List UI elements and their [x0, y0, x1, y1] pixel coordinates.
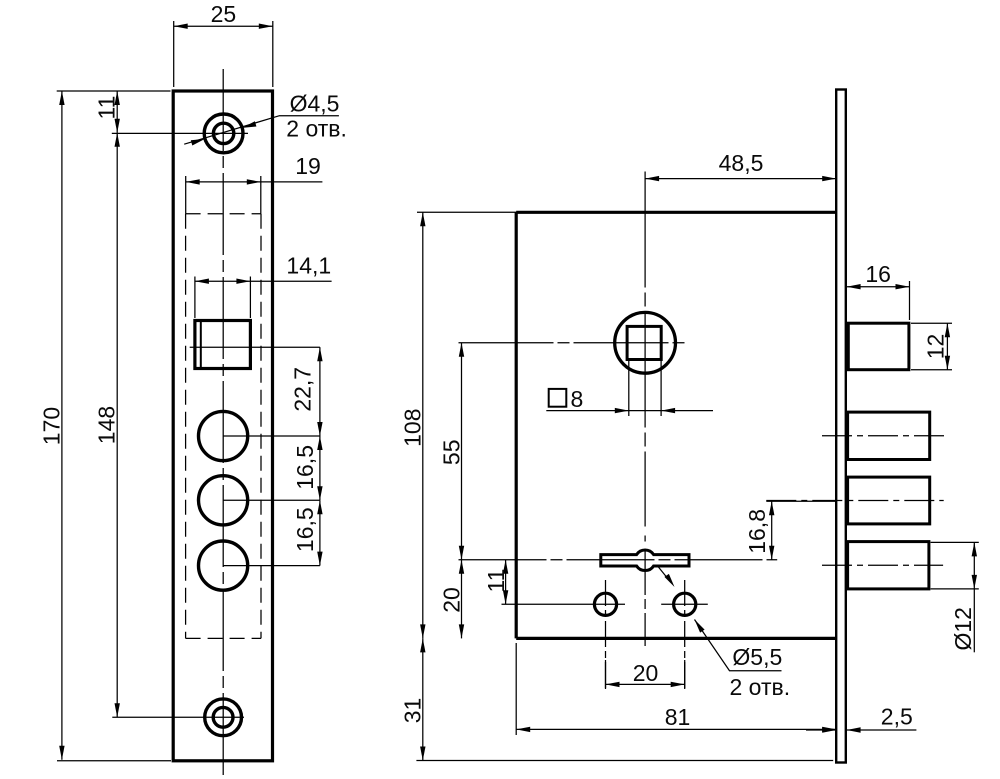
dim 20 left arrow bottom	[459, 624, 464, 638]
faceplate front outline	[173, 91, 272, 761]
dim 14,1 line	[195, 280, 332, 282]
svg-text:25: 25	[211, 1, 237, 27]
dim 22,7 arrow top	[317, 347, 322, 361]
dim 81 arrow left	[516, 727, 530, 732]
dim 108 extension top	[417, 211, 517, 213]
svg-text:Ø12: Ø12	[950, 607, 976, 650]
dim 11 arrow top	[115, 91, 120, 105]
dim 8 extension right	[660, 360, 662, 417]
dim 81 arrow right	[822, 727, 836, 732]
svg-text:148: 148	[93, 406, 119, 444]
pocket dashed top	[186, 213, 261, 215]
dim 25 arrow left	[174, 24, 188, 29]
dim 25 extension right	[272, 21, 274, 87]
lock body top edge	[516, 211, 836, 214]
dim 16,8 arrow bottom	[769, 546, 774, 560]
dim 16,8 ext top	[766, 500, 836, 502]
svg-text:2 отв.: 2 отв.	[730, 674, 791, 700]
spindle circle	[615, 312, 676, 373]
dim 11 body line	[505, 560, 507, 605]
dim 148 arrow top	[115, 133, 120, 147]
spindle vertical centerline	[644, 172, 646, 527]
dim 19 arrow left	[186, 179, 200, 184]
svg-text:31: 31	[400, 698, 426, 724]
dim 25 extension left	[173, 21, 175, 87]
svg-text:16: 16	[865, 261, 891, 287]
dim 20b arrow right	[671, 682, 685, 687]
dim 2,5 arrow left	[822, 727, 836, 732]
dim 19 extension left	[185, 176, 187, 214]
dim 25 line	[174, 25, 273, 27]
bolt hole 3 centerline	[223, 565, 320, 567]
bolt 3 centerline	[822, 564, 943, 566]
svg-text:16,5: 16,5	[292, 507, 318, 552]
dim 81 extension left	[515, 643, 517, 735]
dim 20b extension left	[605, 660, 607, 689]
dim 11 arrow bottom	[115, 119, 120, 133]
dim 22,7 line	[319, 347, 321, 436]
latch centerline	[190, 346, 320, 348]
svg-text:2,5: 2,5	[881, 704, 913, 730]
dim 16,5a line	[319, 436, 321, 500]
face strip outline	[836, 90, 846, 763]
dim 12 arrow top	[945, 323, 950, 337]
dim 55 arrow top	[459, 343, 464, 357]
bolt hole 2 centerline	[223, 499, 320, 501]
cam bar centerline	[459, 559, 778, 561]
dim 14,1 arrow right	[236, 279, 250, 284]
dim 14,1 arrow left	[195, 279, 209, 284]
dim 16 extension right	[909, 281, 911, 320]
dim 48,5 arrow right	[822, 176, 836, 181]
pocket dashed bottom	[186, 637, 261, 639]
top screw hole inner circle	[213, 123, 233, 143]
dim 48,5 arrow left	[645, 176, 659, 181]
dim 20 left arrow top	[459, 560, 464, 574]
dim 11 body arrow top	[503, 560, 508, 574]
fixing hole right v centerline	[684, 580, 686, 691]
dim 8 arrow right	[661, 408, 675, 413]
dim 170 arrow bottom	[59, 746, 64, 760]
lock body bottom edge	[516, 637, 836, 640]
leader cam arrow	[664, 574, 674, 587]
dim 31 bottom extension	[416, 760, 833, 762]
top screw hole horizontal centerline	[112, 132, 248, 134]
svg-text:19: 19	[295, 153, 321, 179]
svg-text:48,5: 48,5	[719, 150, 764, 176]
svg-text:2 отв.: 2 отв.	[286, 116, 347, 142]
leader hole to text	[695, 620, 782, 671]
pocket dashed right	[260, 214, 262, 639]
dim 170 line	[61, 91, 63, 760]
svg-text:81: 81	[665, 704, 691, 730]
dim 31 arrow bottom	[420, 747, 425, 761]
leader arrow right	[242, 121, 256, 128]
bolt 2 side	[848, 477, 930, 524]
latch opening rect	[195, 321, 251, 369]
svg-text:16,5: 16,5	[292, 445, 318, 490]
dim 8 line	[546, 410, 713, 412]
leader hole arrow	[695, 620, 705, 633]
dim 12 line	[946, 323, 948, 370]
svg-text:170: 170	[39, 407, 65, 445]
bolt 3 side	[848, 542, 929, 589]
bolt 1 side	[848, 412, 930, 459]
dim 170 arrow top	[59, 91, 64, 105]
dim 16,5b line	[319, 500, 321, 565]
dim 16,5b arrow bottom	[317, 552, 322, 566]
dim 8 arrow left	[615, 408, 629, 413]
dim 12 ext bottom	[911, 369, 952, 371]
fixing hole left h centerline	[502, 603, 626, 605]
dim 16 line	[847, 286, 910, 288]
svg-text:8: 8	[571, 386, 584, 412]
svg-text:20: 20	[633, 660, 659, 686]
dim 170 extension top	[57, 90, 171, 92]
spindle vertical centerline dash	[644, 536, 646, 542]
dim 16,8 line	[771, 501, 773, 560]
dim 12 arrow bottom	[945, 356, 950, 370]
dim 20b line	[606, 683, 685, 685]
dim 170 extension bottom	[57, 760, 171, 762]
svg-text:108: 108	[400, 409, 426, 447]
bottom screw hole horizontal centerline	[112, 716, 244, 718]
bolt hole 1 centerline	[223, 435, 320, 437]
dim 55 line	[461, 343, 463, 560]
dim 48,5 line	[645, 178, 836, 180]
square symbol	[549, 389, 567, 407]
latch bevel line	[200, 321, 202, 369]
spindle horizontal centerline	[459, 342, 687, 344]
spindle square	[627, 326, 661, 359]
dim 14,1 extension left	[194, 277, 196, 319]
dim 16,5b arrow top	[317, 500, 322, 514]
dim O12 arrow bottom	[972, 575, 977, 589]
fixing hole left v centerline	[605, 580, 607, 691]
dim 22,7 arrow bottom	[317, 422, 322, 436]
latch bolt rect	[848, 323, 909, 370]
bolt 1 centerline	[822, 435, 948, 437]
dim 55 arrow bottom	[459, 546, 464, 560]
faceplate vertical centerline	[222, 69, 224, 777]
key cam bar with boss	[601, 550, 689, 571]
bolt hole 2 front	[199, 476, 248, 525]
dim 19 extension right	[260, 176, 262, 214]
svg-text:Ø4,5: Ø4,5	[290, 91, 340, 117]
dim 11 body arrow bottom	[503, 590, 508, 604]
svg-text:Ø5,5: Ø5,5	[732, 644, 782, 670]
dim 19 arrow right	[247, 179, 261, 184]
bolt 2 centerline	[766, 500, 943, 502]
dim O12 line	[973, 542, 975, 652]
cam boss vertical centerline	[644, 549, 646, 646]
dim 16,8 arrow top	[769, 501, 774, 515]
lock body left edge	[515, 212, 518, 638]
leader arrow left	[191, 139, 205, 146]
bolt hole 3 front	[199, 541, 248, 590]
dim O12 ext top	[931, 541, 979, 543]
dim 16 arrow left	[847, 284, 861, 289]
svg-text:11: 11	[483, 569, 509, 593]
dim 148 arrow bottom	[115, 703, 120, 717]
top screw hole outer circle	[204, 114, 243, 153]
dim 31 arrow top	[420, 638, 425, 652]
bolt hole 1 front	[199, 411, 248, 460]
dim 20 left line	[461, 560, 463, 639]
dim 19 line	[186, 181, 323, 183]
dim 2,5 arrow right	[847, 727, 861, 732]
svg-text:12: 12	[923, 334, 949, 360]
leader line O4,5	[184, 116, 339, 145]
dim 11 line	[116, 91, 118, 133]
dim 16,5a arrow top	[317, 436, 322, 450]
leader cam to hole	[658, 567, 671, 583]
dim 16 arrow right	[896, 284, 910, 289]
dim 148 line	[116, 133, 118, 718]
svg-text:11: 11	[94, 96, 120, 120]
dim 20b extension right	[684, 660, 686, 689]
dim 16,5a arrow bottom	[317, 486, 322, 500]
dim O12 arrow top	[972, 542, 977, 556]
dim 12 ext top	[911, 322, 952, 324]
fixing hole right	[674, 593, 696, 615]
dim 2,5 line right	[847, 729, 917, 731]
pocket dashed left	[185, 214, 187, 639]
dim 2,5 line left	[806, 729, 836, 731]
dim O12 ext bottom	[931, 588, 979, 590]
fixing hole right h centerline	[661, 603, 708, 605]
bottom screw hole outer circle	[205, 699, 242, 736]
svg-text:20: 20	[439, 587, 465, 613]
dim 108 arrow bottom	[420, 624, 425, 638]
svg-text:22,7: 22,7	[290, 367, 316, 412]
svg-text:16,8: 16,8	[744, 509, 770, 554]
dim 81 line	[516, 728, 836, 730]
dim 31 line	[422, 638, 424, 760]
svg-text:55: 55	[439, 440, 465, 466]
bottom screw hole inner circle	[213, 707, 233, 727]
dim 25 arrow right	[259, 24, 273, 29]
dim 14,1 extension right	[249, 277, 251, 319]
svg-text:14,1: 14,1	[286, 253, 331, 279]
fixing hole left	[594, 593, 616, 615]
dim 108 arrow top	[420, 212, 425, 226]
dim 108 line	[422, 212, 424, 638]
dim 8 extension left	[628, 360, 630, 417]
dim 20b arrow left	[606, 682, 620, 687]
